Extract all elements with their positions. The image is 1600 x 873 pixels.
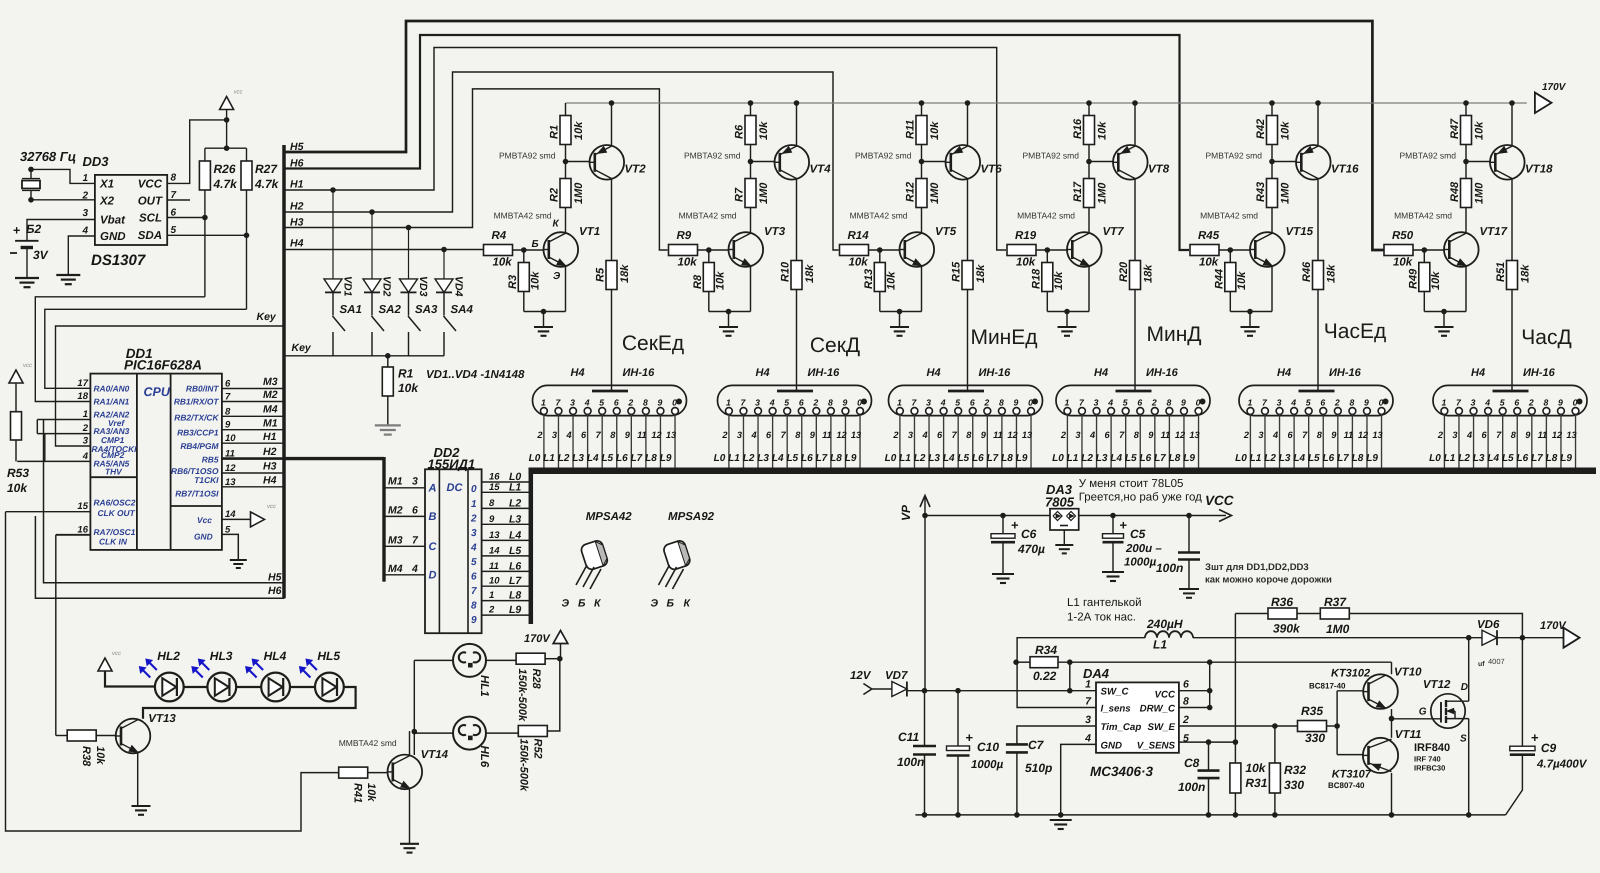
svg-text:10k: 10k <box>94 746 106 765</box>
svg-text:100n: 100n <box>1156 561 1183 575</box>
svg-text:Э: Э <box>562 598 570 610</box>
svg-text:X2: X2 <box>99 196 115 208</box>
svg-text:2: 2 <box>1437 430 1444 440</box>
svg-text:L2: L2 <box>1081 453 1093 464</box>
svg-text:GND: GND <box>100 231 126 243</box>
svg-text:18: 18 <box>77 391 88 402</box>
svg-text:Зшт для DD1,DD2,DD3: Зшт для DD1,DD2,DD3 <box>1205 562 1309 573</box>
svg-text:12: 12 <box>1358 430 1369 440</box>
svg-text:10k: 10k <box>573 121 585 140</box>
svg-text:2: 2 <box>721 430 728 440</box>
svg-text:170V: 170V <box>1542 82 1567 93</box>
svg-text:SA4: SA4 <box>451 304 474 316</box>
svg-text:L2: L2 <box>743 453 755 464</box>
svg-text:13: 13 <box>666 430 676 440</box>
svg-text:8: 8 <box>1349 397 1354 407</box>
svg-text:2: 2 <box>536 430 543 440</box>
svg-text:1: 1 <box>897 397 902 407</box>
svg-text:GND: GND <box>194 532 213 542</box>
svg-text:CLK IN: CLK IN <box>99 536 128 546</box>
svg-text:RB0/INT: RB0/INT <box>186 384 219 394</box>
svg-text:HL5: HL5 <box>317 649 340 663</box>
svg-text:L7: L7 <box>1154 453 1166 464</box>
svg-text:13: 13 <box>1022 430 1032 440</box>
svg-text:9: 9 <box>981 430 987 440</box>
svg-text:SA3: SA3 <box>415 304 438 316</box>
svg-text:RB7/T1OSI: RB7/T1OSI <box>175 489 219 499</box>
svg-text:Н4: Н4 <box>756 367 770 379</box>
svg-text:1: 1 <box>726 397 731 407</box>
svg-text:H3: H3 <box>290 217 304 229</box>
svg-text:Н4: Н4 <box>927 367 941 379</box>
svg-text:M4: M4 <box>388 563 403 575</box>
svg-text:155ИД1: 155ИД1 <box>428 456 476 471</box>
svg-text:VT14: VT14 <box>421 749 449 761</box>
svg-text:VT1: VT1 <box>579 226 600 238</box>
svg-text:5: 5 <box>1500 397 1505 407</box>
svg-text:L6: L6 <box>1140 453 1152 464</box>
svg-text:L5: L5 <box>601 453 613 464</box>
svg-text:M3: M3 <box>263 376 278 388</box>
svg-text:PMBTA92 smd: PMBTA92 smd <box>1205 151 1262 161</box>
svg-text:12: 12 <box>1175 430 1186 440</box>
svg-text:SCL: SCL <box>139 213 162 225</box>
svg-text:RB2/TX/CK: RB2/TX/CK <box>174 412 219 422</box>
svg-text:10: 10 <box>489 576 500 587</box>
svg-text:Vbat: Vbat <box>100 215 126 227</box>
svg-text:3: 3 <box>82 208 88 219</box>
svg-text:VT13: VT13 <box>148 713 176 725</box>
svg-text:3: 3 <box>471 528 477 539</box>
svg-text:18k: 18k <box>804 264 816 283</box>
svg-text:L2: L2 <box>509 497 521 509</box>
svg-text:7: 7 <box>471 586 477 597</box>
svg-text:330: 330 <box>1284 778 1304 792</box>
svg-text:R14: R14 <box>848 230 870 242</box>
svg-text:RB3/CCP1: RB3/CCP1 <box>177 428 219 438</box>
svg-text:6: 6 <box>614 397 619 407</box>
svg-text:KT3107: KT3107 <box>1332 769 1372 781</box>
svg-text:R28: R28 <box>530 669 542 690</box>
svg-text:13: 13 <box>489 530 500 541</box>
svg-text:L0: L0 <box>1429 453 1441 464</box>
svg-text:L3: L3 <box>928 453 940 464</box>
svg-text:C11: C11 <box>898 730 919 744</box>
svg-text:8: 8 <box>489 498 495 509</box>
svg-text:32768 Гц: 32768 Гц <box>20 149 76 164</box>
svg-text:R8: R8 <box>692 274 704 289</box>
svg-text:9: 9 <box>471 615 477 626</box>
svg-text:Э: Э <box>651 598 659 610</box>
svg-text:Vcc: Vcc <box>197 515 212 525</box>
svg-text:R48: R48 <box>1449 181 1461 202</box>
svg-text:R44: R44 <box>1214 269 1226 289</box>
svg-text:5: 5 <box>784 397 789 407</box>
svg-text:H1: H1 <box>263 431 277 443</box>
svg-text:SW_E: SW_E <box>1148 722 1176 733</box>
svg-text:L1: L1 <box>1444 453 1456 464</box>
svg-text:L5: L5 <box>1502 453 1514 464</box>
svg-text:MMBTA42 smd: MMBTA42 smd <box>679 211 737 221</box>
svg-text:470µ: 470µ <box>1017 542 1045 556</box>
svg-text:9: 9 <box>1148 430 1154 440</box>
svg-text:L9: L9 <box>509 604 521 616</box>
svg-text:D: D <box>429 570 437 582</box>
svg-text:4: 4 <box>750 430 756 440</box>
svg-text:C8: C8 <box>1184 756 1200 770</box>
svg-text:R11: R11 <box>905 120 917 139</box>
svg-text:+: + <box>13 224 20 238</box>
svg-text:C6: C6 <box>1021 527 1037 541</box>
svg-text:1M0: 1M0 <box>929 182 941 204</box>
svg-text:3: 3 <box>1471 397 1476 407</box>
svg-text:R19: R19 <box>1015 230 1037 242</box>
svg-text:R46: R46 <box>1301 261 1313 282</box>
svg-text:10k: 10k <box>1236 271 1248 290</box>
svg-text:1M0: 1M0 <box>1326 622 1350 636</box>
svg-text:CLK OUT: CLK OUT <box>98 508 136 518</box>
svg-text:DS1307: DS1307 <box>91 252 146 269</box>
svg-text:14: 14 <box>489 545 500 556</box>
svg-text:B: B <box>429 511 437 523</box>
svg-text:2: 2 <box>1182 714 1189 726</box>
svg-text:R16: R16 <box>1072 118 1084 139</box>
svg-text:МинЕд: МинЕд <box>970 326 1037 349</box>
svg-text:СекД: СекД <box>810 334 860 357</box>
svg-text:ЧасЕд: ЧасЕд <box>1324 320 1386 343</box>
svg-text:11: 11 <box>993 430 1003 440</box>
svg-text:11: 11 <box>1538 430 1548 440</box>
svg-text:1M0: 1M0 <box>1280 182 1292 204</box>
svg-text:L7: L7 <box>1531 453 1543 464</box>
svg-text:3: 3 <box>1075 430 1080 440</box>
svg-text:L2: L2 <box>1458 453 1470 464</box>
svg-text:16: 16 <box>77 524 88 535</box>
svg-text:VD1..VD4 -1N4148: VD1..VD4 -1N4148 <box>426 369 525 381</box>
svg-text:RA1/AN1: RA1/AN1 <box>94 397 130 407</box>
svg-text:6: 6 <box>1105 430 1111 440</box>
svg-text:VT17: VT17 <box>1480 226 1508 238</box>
svg-text:Б2: Б2 <box>26 222 41 236</box>
svg-text:L9: L9 <box>1560 453 1572 464</box>
svg-text:8: 8 <box>171 173 177 184</box>
svg-text:R15: R15 <box>951 261 963 282</box>
svg-text:11: 11 <box>1161 430 1171 440</box>
svg-text:1M0: 1M0 <box>758 182 770 204</box>
svg-text:7: 7 <box>596 430 602 440</box>
svg-text:10k: 10k <box>1053 271 1065 290</box>
svg-text:330: 330 <box>1305 731 1325 745</box>
svg-text:4.7k: 4.7k <box>213 177 239 191</box>
svg-text:IRF 740: IRF 740 <box>1414 755 1441 764</box>
svg-text:1: 1 <box>1247 397 1252 407</box>
svg-text:150k-500k: 150k-500k <box>518 739 530 792</box>
svg-text:R13: R13 <box>863 269 875 289</box>
svg-text:10k: 10k <box>398 381 419 395</box>
svg-text:ИН-16: ИН-16 <box>623 367 656 379</box>
svg-text:как можно короче дорожки: как можно короче дорожки <box>1205 575 1332 586</box>
svg-text:7: 7 <box>781 430 787 440</box>
svg-text:1: 1 <box>541 397 546 407</box>
svg-text:8: 8 <box>1134 430 1140 440</box>
svg-text:7805: 7805 <box>1045 495 1075 510</box>
svg-text:L3: L3 <box>757 453 769 464</box>
svg-text:8: 8 <box>1511 430 1517 440</box>
svg-text:10k: 10k <box>1430 271 1442 290</box>
svg-text:1-2А ток нас.: 1-2А ток нас. <box>1067 612 1136 624</box>
svg-text:1M0: 1M0 <box>1474 182 1486 204</box>
svg-text:DD3: DD3 <box>83 154 110 169</box>
svg-text:+: + <box>1011 518 1019 533</box>
svg-text:2: 2 <box>892 430 899 440</box>
svg-text:R3: R3 <box>507 275 519 289</box>
svg-text:MC3406·3: MC3406·3 <box>1090 764 1154 779</box>
svg-text:L9: L9 <box>1016 453 1028 464</box>
svg-text:L5: L5 <box>1125 453 1137 464</box>
svg-text:L0: L0 <box>885 453 897 464</box>
svg-text:Б: Б <box>578 598 586 610</box>
svg-text:6: 6 <box>581 430 587 440</box>
svg-text:8: 8 <box>795 430 801 440</box>
svg-text:8: 8 <box>610 430 616 440</box>
svg-text:11: 11 <box>1344 430 1354 440</box>
svg-text:vcc: vcc <box>267 504 276 510</box>
svg-text:1: 1 <box>1064 397 1069 407</box>
svg-text:5: 5 <box>1306 397 1311 407</box>
svg-text:L5: L5 <box>509 545 521 557</box>
svg-text:L6: L6 <box>801 453 813 464</box>
svg-text:3: 3 <box>412 476 418 488</box>
svg-text:390k: 390k <box>1273 622 1301 636</box>
svg-text:C9: C9 <box>1541 741 1557 755</box>
svg-text:13: 13 <box>1189 430 1199 440</box>
svg-text:L7: L7 <box>509 575 522 587</box>
svg-text:Н4: Н4 <box>571 367 585 379</box>
svg-text:L3: L3 <box>1473 453 1485 464</box>
svg-text:M1: M1 <box>263 417 278 429</box>
svg-text:4.7k: 4.7k <box>254 177 280 191</box>
svg-text:10k: 10k <box>678 257 698 269</box>
svg-text:2: 2 <box>627 397 633 407</box>
svg-text:4: 4 <box>584 397 590 407</box>
svg-text:15: 15 <box>489 482 500 493</box>
svg-text:Н4: Н4 <box>1471 367 1485 379</box>
svg-text:8: 8 <box>1166 397 1171 407</box>
svg-text:9: 9 <box>810 430 816 440</box>
svg-text:MMBTA42 smd: MMBTA42 smd <box>1394 211 1452 221</box>
svg-text:10k: 10k <box>365 783 377 802</box>
svg-text:L0: L0 <box>1052 453 1064 464</box>
svg-text:6: 6 <box>1514 397 1519 407</box>
svg-text:Tim_Cap: Tim_Cap <box>1101 722 1142 733</box>
svg-text:PMBTA92 smd: PMBTA92 smd <box>1399 151 1456 161</box>
svg-text:L6: L6 <box>616 453 628 464</box>
svg-text:VT10: VT10 <box>1394 667 1422 679</box>
svg-text:У меня стоит 78L05: У меня стоит 78L05 <box>1079 478 1184 490</box>
svg-text:12: 12 <box>651 430 662 440</box>
svg-text:S: S <box>1460 734 1467 745</box>
svg-text:2: 2 <box>1528 397 1534 407</box>
svg-text:4007: 4007 <box>1488 657 1505 666</box>
svg-text:10k: 10k <box>849 257 869 269</box>
svg-text:R26: R26 <box>214 162 236 176</box>
svg-text:4: 4 <box>565 430 571 440</box>
svg-text:R51: R51 <box>1495 262 1507 282</box>
svg-text:ИН-16: ИН-16 <box>1329 367 1362 379</box>
svg-text:6: 6 <box>970 397 975 407</box>
svg-text:L9: L9 <box>660 453 672 464</box>
svg-text:6: 6 <box>937 430 943 440</box>
svg-text:I_sens: I_sens <box>1101 704 1132 715</box>
svg-text:L4: L4 <box>1293 453 1305 464</box>
svg-text:L2: L2 <box>914 453 926 464</box>
svg-text:SDA: SDA <box>138 230 162 242</box>
svg-text:L8: L8 <box>509 590 521 602</box>
svg-text:10k: 10k <box>1097 121 1109 140</box>
svg-text:PMBTA92 smd: PMBTA92 smd <box>499 151 556 161</box>
svg-text:Key: Key <box>292 342 312 354</box>
svg-text:VCC: VCC <box>1155 690 1176 701</box>
svg-text:X1: X1 <box>99 179 114 191</box>
svg-text:18k: 18k <box>1520 264 1532 283</box>
svg-text:8: 8 <box>999 397 1004 407</box>
svg-text:L6: L6 <box>1517 453 1529 464</box>
svg-text:12: 12 <box>1007 430 1018 440</box>
svg-text:10k: 10k <box>715 271 727 290</box>
svg-text:R2: R2 <box>549 188 561 202</box>
svg-text:3: 3 <box>737 430 742 440</box>
svg-text:HL3: HL3 <box>210 649 233 663</box>
svg-text:4: 4 <box>1107 397 1113 407</box>
svg-text:VT3: VT3 <box>764 226 786 238</box>
svg-text:VT4: VT4 <box>810 164 832 176</box>
svg-text:R42: R42 <box>1255 119 1267 139</box>
svg-text:VP: VP <box>899 504 913 521</box>
svg-text:18k: 18k <box>975 264 987 283</box>
svg-text:8: 8 <box>1317 430 1323 440</box>
svg-text:2: 2 <box>1243 430 1250 440</box>
svg-text:THV: THV <box>105 466 123 476</box>
svg-text:1: 1 <box>1085 679 1091 691</box>
svg-text:Греется,но раб уже год: Греется,но раб уже год <box>1079 492 1202 504</box>
svg-text:ИН-16: ИН-16 <box>1146 367 1179 379</box>
svg-text:MMBTA42 smd: MMBTA42 smd <box>1200 211 1258 221</box>
svg-text:C: C <box>429 541 438 553</box>
svg-text:R7: R7 <box>734 187 746 202</box>
svg-text:8: 8 <box>828 397 833 407</box>
svg-text:ЧасД: ЧасД <box>1521 326 1571 349</box>
svg-text:Э: Э <box>553 271 561 282</box>
svg-text:L8: L8 <box>1352 453 1364 464</box>
svg-text:10k: 10k <box>1393 257 1413 269</box>
svg-text:PIC16F628A: PIC16F628A <box>124 358 202 373</box>
svg-text:9: 9 <box>843 397 848 407</box>
svg-text:8: 8 <box>643 397 648 407</box>
svg-text:R1: R1 <box>398 367 414 381</box>
svg-text:L5: L5 <box>786 453 798 464</box>
svg-text:2: 2 <box>470 513 477 524</box>
svg-text:4: 4 <box>769 397 775 407</box>
svg-text:7: 7 <box>1119 430 1125 440</box>
svg-text:VT6: VT6 <box>981 164 1003 176</box>
svg-text:R27: R27 <box>255 162 278 176</box>
svg-text:IRF840: IRF840 <box>1414 742 1450 754</box>
svg-text:MMBTA42 smd: MMBTA42 smd <box>1017 211 1075 221</box>
svg-text:HL1: HL1 <box>478 675 490 697</box>
svg-text:5: 5 <box>599 397 604 407</box>
svg-text:H4: H4 <box>290 238 304 250</box>
svg-text:12: 12 <box>836 430 847 440</box>
svg-text:17: 17 <box>77 378 88 389</box>
svg-text:11: 11 <box>489 561 499 572</box>
svg-text:L3: L3 <box>572 453 584 464</box>
svg-text:10k: 10k <box>929 121 941 140</box>
svg-text:M2: M2 <box>388 505 403 517</box>
svg-text:R35: R35 <box>1301 704 1323 718</box>
svg-text:HL6: HL6 <box>478 746 490 768</box>
svg-text:R6: R6 <box>734 124 746 139</box>
svg-text:VCC: VCC <box>1205 493 1234 508</box>
svg-text:VT11: VT11 <box>1395 729 1422 741</box>
svg-text:3: 3 <box>908 430 913 440</box>
svg-text:MMBTA42 smd: MMBTA42 smd <box>850 211 908 221</box>
svg-text:L8: L8 <box>645 453 657 464</box>
svg-text:3: 3 <box>1277 397 1282 407</box>
svg-text:3: 3 <box>1258 430 1263 440</box>
svg-text:+: + <box>1531 730 1539 745</box>
svg-text:RB5: RB5 <box>202 455 219 465</box>
svg-text:2: 2 <box>1060 430 1067 440</box>
svg-text:L9: L9 <box>845 453 857 464</box>
svg-text:+: + <box>966 730 974 745</box>
svg-text:3: 3 <box>1094 397 1099 407</box>
svg-text:6: 6 <box>1320 397 1325 407</box>
svg-text:H1: H1 <box>290 179 304 191</box>
svg-text:A: A <box>428 483 437 495</box>
svg-text:L7: L7 <box>631 453 643 464</box>
svg-text:H6: H6 <box>268 585 282 597</box>
svg-text:R34: R34 <box>1035 643 1057 657</box>
svg-text:VD1: VD1 <box>342 276 354 297</box>
svg-text:BC807-40: BC807-40 <box>1328 781 1365 790</box>
svg-text:MPSA42: MPSA42 <box>586 511 633 523</box>
svg-text:L1 гантелькой: L1 гантелькой <box>1067 597 1142 609</box>
svg-text:L1: L1 <box>509 481 521 493</box>
svg-text:L5: L5 <box>957 453 969 464</box>
svg-text:2: 2 <box>1151 397 1157 407</box>
svg-text:VT8: VT8 <box>1148 164 1170 176</box>
svg-text:6: 6 <box>1137 397 1142 407</box>
svg-text:5: 5 <box>955 397 960 407</box>
svg-text:9: 9 <box>1558 397 1563 407</box>
svg-text:SA1: SA1 <box>340 304 362 316</box>
svg-text:18k: 18k <box>619 264 631 283</box>
svg-text:R41: R41 <box>352 783 364 803</box>
svg-text:R53: R53 <box>7 466 29 480</box>
svg-text:4: 4 <box>1272 430 1278 440</box>
svg-text:170V: 170V <box>1540 620 1567 632</box>
svg-text:6: 6 <box>766 430 772 440</box>
svg-text:DRW_C: DRW_C <box>1140 704 1176 715</box>
svg-text:6: 6 <box>1183 679 1189 691</box>
svg-text:18k: 18k <box>1143 264 1155 283</box>
svg-text:ИН-16: ИН-16 <box>1523 367 1556 379</box>
svg-text:uf: uf <box>1478 660 1485 668</box>
svg-text:6: 6 <box>471 572 477 583</box>
svg-text:L8: L8 <box>1169 453 1181 464</box>
svg-text:RA6/OSC2: RA6/OSC2 <box>94 497 136 507</box>
svg-text:VCC: VCC <box>138 179 163 191</box>
